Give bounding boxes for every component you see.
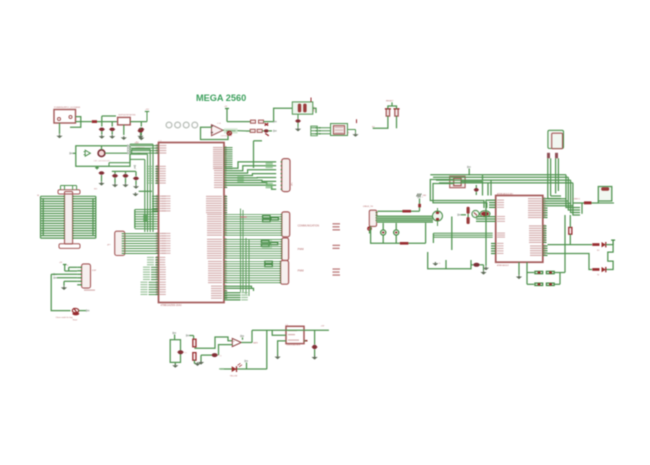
wire left drop to IC8 xyxy=(272,330,286,335)
diode D2 xyxy=(386,109,389,116)
fuse wires xyxy=(573,201,598,203)
header XIO center strip xyxy=(65,192,73,245)
resonator top stub xyxy=(356,119,358,123)
wire right vertical xyxy=(253,141,255,168)
loop top pad xyxy=(174,335,176,340)
IC3 left pins group D wires xyxy=(159,233,166,234)
IC4 ATmega16U2 body xyxy=(496,196,543,263)
solder jumper xyxy=(72,308,78,312)
svg-text:GATE: GATE xyxy=(253,342,259,345)
capacitor C1 output xyxy=(140,122,142,127)
svg-text:USB-B_TH: USB-B_TH xyxy=(363,206,373,208)
wire long vertical to LED xyxy=(266,330,268,369)
svg-text:+5V: +5V xyxy=(145,109,149,111)
header PWM1 xyxy=(282,238,289,261)
header XIO right wire field xyxy=(73,195,96,197)
cross marks xyxy=(265,123,269,125)
op-amp output wire xyxy=(223,129,246,132)
bundle corners to lower bundle xyxy=(566,175,580,208)
wires IC to PWM1 header xyxy=(224,238,282,240)
svg-text:JP5: JP5 xyxy=(292,183,294,186)
IC8 right stub xyxy=(304,340,308,342)
resistor RN2B xyxy=(193,353,196,361)
wire diode to regulator xyxy=(97,121,118,123)
pad stub right xyxy=(134,166,136,169)
gnd pad above LED wire xyxy=(246,363,248,370)
IC3 left pins group E stubs xyxy=(155,257,158,259)
loop ground xyxy=(174,362,176,364)
IC3 left pins group B stubs xyxy=(155,166,158,168)
opamp IC7B xyxy=(232,338,241,346)
IC4 ground left xyxy=(486,200,489,266)
diode D1 xyxy=(92,120,97,123)
header top feed stubs xyxy=(60,186,62,190)
oscillator F1 left circle xyxy=(472,210,479,217)
wire long loop to jumper xyxy=(51,274,70,310)
crystal top stub xyxy=(468,169,470,176)
svg-text:RESET: RESET xyxy=(386,101,394,103)
svg-text:NCP1117ST50T3G: NCP1117ST50T3G xyxy=(118,115,135,117)
svg-text:Reset: Reset xyxy=(73,319,78,322)
comparator box xyxy=(76,146,130,167)
svg-text:MEGA 2560: MEGA 2560 xyxy=(196,93,246,103)
resistor pair row 1 xyxy=(527,272,534,274)
connector JP left of IC xyxy=(115,231,125,255)
op-amp IC half xyxy=(85,150,90,156)
svg-text:IC3: IC3 xyxy=(159,141,162,143)
wires IC to PWM2 header xyxy=(224,261,281,263)
capacitor C13 horizontal xyxy=(473,263,479,267)
mosfet T1 FDN340P xyxy=(98,150,105,157)
capacitor C close xyxy=(250,129,255,132)
wires IC to COMM header xyxy=(224,214,282,216)
IC4 ground bottom xyxy=(518,262,520,275)
svg-text:ATMEGA2560-16AU: ATMEGA2560-16AU xyxy=(161,304,182,307)
svg-text:PWM: PWM xyxy=(298,270,304,273)
varistor Z1 xyxy=(381,230,386,235)
IC3 right pin stubs all rows xyxy=(224,147,227,149)
caps 22pF pair xyxy=(467,207,470,214)
svg-text:USBVCC: USBVCC xyxy=(573,199,581,201)
wire IC8 input gnd xyxy=(278,341,286,356)
RX LED + resistor xyxy=(548,244,593,246)
svg-text:ATMEGA16U2-MU: ATMEGA16U2-MU xyxy=(497,192,514,195)
shield stub UGND xyxy=(419,199,421,212)
series resistors RN4 xyxy=(263,216,271,218)
crystal Y2 16MHz xyxy=(450,176,465,187)
vertical routing right of IC xyxy=(240,209,242,293)
diode D3 xyxy=(395,109,398,116)
resistor RN1 vertical xyxy=(569,227,572,234)
svg-text:ATMEGA16U2: ATMEGA16U2 xyxy=(497,264,509,267)
TX LED + resistor xyxy=(548,254,593,270)
wire jack output xyxy=(70,117,81,128)
IC3 left pin stub dots xyxy=(156,145,159,147)
pad +3V3 left xyxy=(70,152,73,154)
IC bottom right wires with labels xyxy=(224,292,241,294)
svg-text:IC8: IC8 xyxy=(285,324,288,326)
IC3 right pins to JP5 fan xyxy=(224,162,276,168)
capacitor row C4 xyxy=(112,170,136,172)
svg-text:COMMUNICATION: COMMUNICATION xyxy=(298,225,320,228)
ICSP wiring left xyxy=(65,270,78,272)
opamp +5V stub xyxy=(242,338,244,340)
capacitor PC2 xyxy=(111,122,113,127)
capacitor crystal gnd xyxy=(297,114,299,119)
resistor chain ground xyxy=(194,363,196,365)
capacitor C5 xyxy=(123,174,128,178)
GND label symbol xyxy=(417,194,419,197)
svg-text:YELLOW: YELLOW xyxy=(230,375,238,377)
resistor pair row 2 xyxy=(527,283,534,285)
svg-text:C9: C9 xyxy=(185,353,187,355)
wire bundle to IC left pins xyxy=(135,209,159,211)
wire regulator output +5V xyxy=(130,121,147,123)
capacitor C3 below comparator xyxy=(96,166,98,169)
capacitor PC1 xyxy=(101,122,103,127)
ICSP pin stubs and wires xyxy=(77,266,81,268)
IC3 right inner labels xyxy=(213,147,223,148)
svg-text:CMP_LMV358IDGKR: CMP_LMV358IDGKR xyxy=(94,161,111,163)
resistor blobs PWM2 xyxy=(265,261,273,263)
jumper right pad xyxy=(79,310,87,312)
ICSP header xyxy=(82,264,91,288)
net labels right 2 xyxy=(333,245,341,246)
crystal Q1 16MHz block xyxy=(292,102,313,114)
pad arrow left xyxy=(458,214,461,216)
crystal cap C11 xyxy=(475,185,477,188)
fuse F1 block xyxy=(598,187,612,202)
IC3 left pins group C wires xyxy=(152,195,159,197)
IC3 left pins group A with wires xyxy=(131,145,159,147)
resistor RN3A fuse xyxy=(402,210,411,213)
svg-text:C8: C8 xyxy=(219,356,221,358)
header XIO pin pads xyxy=(63,196,65,197)
caps row 1 XTAL xyxy=(227,121,251,123)
IC8 LMV358 block xyxy=(286,326,304,343)
LED L yellow xyxy=(220,368,267,370)
fan junction blobs xyxy=(237,176,244,183)
xtal-reset bundle horizontal xyxy=(430,174,566,176)
usb data band xyxy=(377,216,433,223)
crystal loop wires xyxy=(430,180,484,209)
button wires join bundle xyxy=(548,198,561,200)
RX staircase to +5V xyxy=(606,245,613,270)
svg-text:36: 36 xyxy=(37,195,39,197)
svg-text:JP?: JP? xyxy=(107,244,110,246)
IC3 ATmega2560 body xyxy=(159,143,225,303)
pad RX stub xyxy=(187,335,190,337)
+5V stub top xyxy=(226,109,228,122)
svg-text:Y1: Y1 xyxy=(348,132,350,134)
verticals into IC4 top xyxy=(482,175,484,180)
header PWM2 xyxy=(281,261,289,285)
ground jack xyxy=(59,123,61,134)
caps row 2 xyxy=(246,130,250,132)
capacitor C6 xyxy=(133,177,138,181)
net label box xyxy=(224,128,238,133)
vertical from bundle xyxy=(564,215,566,273)
varistor Z2 xyxy=(394,230,399,235)
resistor RN3B xyxy=(400,242,409,245)
oscillator F1 right resonator xyxy=(480,211,490,217)
resonator ground xyxy=(348,129,356,131)
frame ground 2 xyxy=(483,265,485,271)
op-amp feedback loop xyxy=(201,127,229,139)
usb top wires VBUS D- D+ xyxy=(378,210,420,212)
frame ground 1 xyxy=(434,262,436,263)
junction blob xyxy=(143,215,148,221)
resistor loop RN5 xyxy=(170,340,180,363)
IC4 right pin number fringe xyxy=(544,197,546,198)
wire crystal to caps xyxy=(274,108,293,121)
button wires down xyxy=(547,158,549,198)
opamp feedback cap C8 xyxy=(219,345,233,356)
ground mid-left xyxy=(139,190,152,192)
IC3 left inner labels mid xyxy=(162,196,171,197)
wire diodes bottom to 5V xyxy=(376,116,388,128)
IC3 right pins upper group wires xyxy=(224,147,233,149)
header XIO top bracket xyxy=(58,190,80,194)
cap on loop xyxy=(178,350,184,354)
ICSP2 connector pads xyxy=(311,127,334,129)
usb ground xyxy=(369,230,371,233)
opamp output wire GATE xyxy=(241,342,252,344)
usb frame bottom xyxy=(371,226,400,243)
header COMMUNICATION xyxy=(282,212,290,237)
resonator Y1 green box xyxy=(331,124,348,136)
capacitor C10 right xyxy=(314,330,316,344)
header XIO bottom bracket xyxy=(59,244,80,249)
net labels right 3 xyxy=(333,268,341,269)
net labels right 1 xyxy=(333,223,341,224)
mounting holes xyxy=(166,122,172,128)
connector JP wires to IC xyxy=(123,233,159,235)
usb shield diode xyxy=(368,227,372,230)
wire node to opamp xyxy=(194,337,232,348)
left vertical to IC4 xyxy=(526,262,528,272)
reset button S2 xyxy=(548,130,564,148)
IC3 left pins group F wires xyxy=(151,266,159,268)
bundle mid to IC xyxy=(433,232,492,234)
resistor RN2A xyxy=(193,336,195,340)
resistor blobs PWM1 xyxy=(261,241,269,243)
wire diodes top xyxy=(388,106,397,109)
op-amp IC7A triangle xyxy=(212,125,224,136)
svg-text:Closer switch for bug: Closer switch for bug xyxy=(56,316,73,319)
IC4 left pins xyxy=(489,199,496,201)
ICSP +5V stubs xyxy=(64,265,66,272)
svg-text:16MHz: 16MHz xyxy=(314,106,316,112)
varistor pair left xyxy=(433,211,443,221)
wire net 4 xyxy=(130,158,145,160)
IC4 right pins and labels xyxy=(543,198,548,200)
svg-text:LMV358IDGKR: LMV358IDGKR xyxy=(221,136,233,138)
red marker xyxy=(227,131,231,135)
DTR cap frame xyxy=(428,252,471,269)
connector JP5 xyxy=(282,159,290,192)
header XIO left wire field xyxy=(41,195,65,197)
resonator Y1 red box xyxy=(334,126,345,134)
svg-text:PWM: PWM xyxy=(298,248,304,251)
svg-text:LMV358IDGKR: LMV358IDGKR xyxy=(287,344,301,346)
capacitor top-left AREF xyxy=(138,129,143,133)
wire +5V top rail xyxy=(252,329,329,331)
